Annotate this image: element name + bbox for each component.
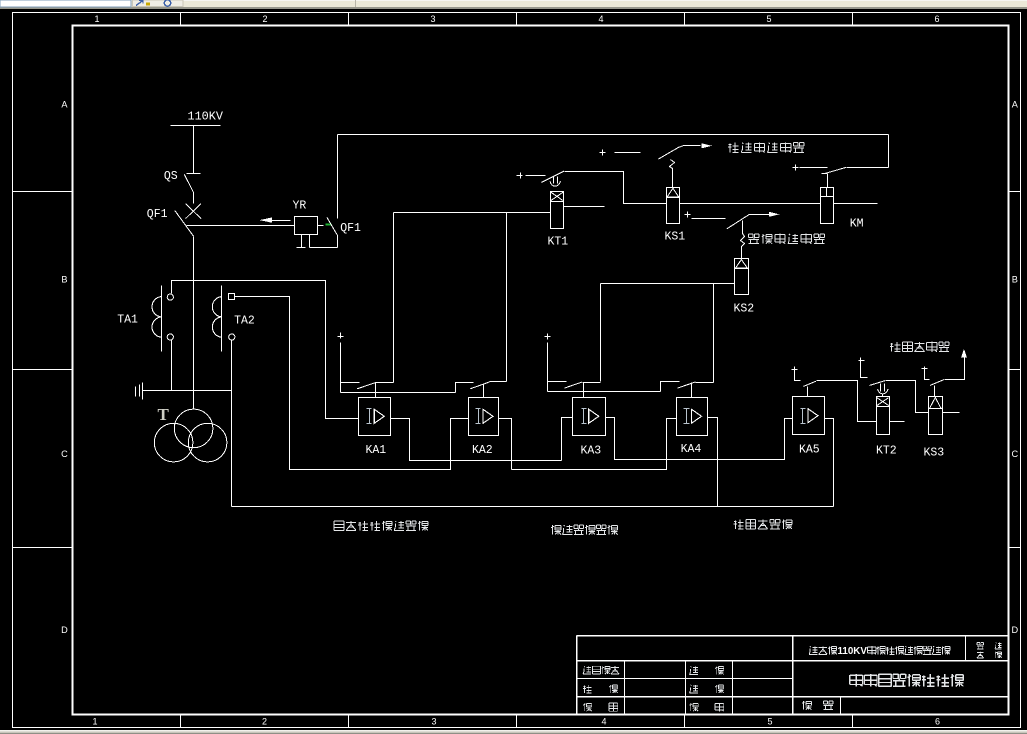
top rail wire [338, 134, 889, 136]
title block label 设计 [690, 666, 724, 674]
caption 过负荷保护 [734, 520, 792, 529]
KA4 contact fixed lead [661, 382, 680, 392]
KS1 contact fixed lead [615, 152, 641, 154]
title block label 指导教师 [583, 666, 619, 674]
node plus KS1 contact [600, 150, 606, 156]
label 过负荷信号 [890, 342, 949, 352]
bottom zone band ticks [181, 715, 853, 728]
KA4 contact blade [677, 382, 695, 388]
status bar sliver bottom [0, 730, 1027, 734]
KS1 contact blade [658, 147, 679, 159]
wire KA1 blade to coil [375, 383, 377, 398]
KT2 contact blade [870, 381, 886, 386]
right zone letters [1011, 100, 1018, 636]
KS3 contact fixed lead [925, 372, 930, 380]
overcurrent relay KA1 [359, 398, 391, 458]
svg-text:B: B [61, 275, 67, 285]
svg-text:110KV: 110KV [838, 646, 868, 657]
quick-break trip signal arrow [750, 212, 780, 217]
svg-text:T: T [158, 405, 170, 424]
KS3 contact blade [930, 380, 944, 386]
wire TA1 to ground bus [171, 341, 173, 391]
wire KA5 down to bottom bus [825, 419, 834, 507]
svg-text:D: D [1011, 625, 1018, 635]
node 110KV label [188, 110, 224, 124]
left zone divider A/B [13, 191, 73, 193]
svg-text:KA1: KA1 [366, 444, 387, 457]
hinge bus wire KA1 KA2 [341, 392, 456, 394]
svg-text:3: 3 [430, 14, 435, 24]
svg-text:A: A [1012, 100, 1019, 110]
wire KA4 blade to coil [691, 383, 693, 398]
disconnector QS [164, 170, 201, 193]
ground bus wire [143, 390, 232, 392]
wire KS3 blade to coil [934, 386, 936, 397]
wire KT2 right stub [890, 421, 905, 423]
svg-text:B: B [1012, 275, 1018, 285]
wire YR to QF1 aux [310, 235, 338, 248]
wire KS2 bus right leg [713, 284, 715, 383]
node plus KA1 KA2 feed [338, 333, 344, 339]
svg-text:KM: KM [850, 218, 864, 231]
KA3 contact blade [564, 382, 582, 388]
svg-text:KS1: KS1 [665, 231, 686, 244]
bottom return bus [232, 506, 834, 508]
overcurrent trip signal arrow [679, 143, 713, 148]
wire KS2 feed bus [601, 283, 735, 285]
delayed action symbol KT2 [878, 384, 889, 397]
title block label 制图 [690, 685, 724, 693]
wire KS1 to KM [680, 203, 821, 205]
svg-text:D: D [61, 625, 68, 635]
wire KA3 blade to coil [583, 383, 585, 398]
svg-text:KT1: KT1 [548, 236, 569, 249]
ground [136, 383, 143, 400]
transformer T [154, 405, 227, 462]
svg-text:QF1: QF1 [340, 222, 361, 235]
caption 电流速断保护 [551, 525, 617, 534]
drawing title 变压器保护原理图 [850, 674, 963, 687]
overcurrent relay KA2 [469, 398, 499, 458]
aux contact QF1 [327, 217, 361, 235]
quick-break relay KA3 [573, 398, 606, 458]
delayed action symbol KT1 [550, 177, 561, 187]
svg-text:KA4: KA4 [681, 443, 702, 456]
bottom zone numbers [92, 717, 940, 727]
top zone numbers [94, 14, 939, 24]
wire QF1 aux to top rail [337, 135, 339, 219]
right zone divider A/B [1009, 191, 1021, 193]
wire KM contact to coil [827, 174, 829, 188]
svg-text:2: 2 [262, 14, 267, 24]
time relay KT1 [548, 192, 569, 249]
wire KM right stub [834, 203, 878, 205]
wire KS3 right stub [943, 412, 960, 414]
right zone divider B/C [1009, 369, 1021, 371]
node plus KS3 contact [922, 367, 928, 373]
svg-text:6: 6 [934, 14, 939, 24]
KM contact blade [822, 167, 847, 173]
KT1 contact fixed lead [526, 175, 546, 177]
wire KA2 contact out [490, 381, 507, 383]
KA1 contact blade [357, 383, 375, 389]
YR legs [297, 235, 310, 248]
KA2 contact blade [470, 382, 489, 389]
left zone divider C/D [13, 547, 73, 549]
wire YR right stub [318, 225, 324, 227]
top zone band ticks [181, 13, 853, 26]
wire riser to KA3 [562, 418, 573, 461]
time relay KT2 [876, 397, 897, 458]
signal relay KS2 [734, 259, 755, 316]
wire KT1 left [394, 212, 551, 214]
node plus KT2 contact [859, 358, 865, 364]
svg-text:KS2: KS2 [734, 303, 755, 316]
KS2 contact fixed lead [692, 218, 726, 220]
svg-text:KS3: KS3 [924, 447, 945, 460]
svg-text:110KV: 110KV [188, 110, 224, 124]
node plus KA3 KA4 feed [545, 334, 551, 340]
project title 某新建110KV变电所电气部分设计 [809, 646, 950, 657]
label 过流跳闸信号 [728, 142, 804, 152]
svg-text:A: A [61, 100, 68, 110]
svg-text:5: 5 [767, 717, 772, 727]
wire KA1 contact out [376, 382, 394, 384]
svg-text:1: 1 [92, 717, 97, 727]
wire KA2 contact riser to KT1 [506, 213, 508, 382]
label 速断跳闸信号 [749, 234, 825, 244]
left zone divider B/C [13, 369, 73, 371]
circuit breaker QF1 [147, 204, 201, 237]
wire KA3 contact out [583, 382, 601, 384]
wire KA1 to KA2 [391, 419, 562, 461]
svg-text:C: C [61, 449, 68, 459]
overload relay KA5 [793, 397, 825, 457]
wire TA2 down to bottom bus [231, 341, 233, 507]
svg-text:TA2: TA2 [234, 315, 255, 328]
svg-text:KA2: KA2 [472, 444, 493, 457]
wire link to KA4 [512, 419, 677, 470]
overload signal arrow [945, 349, 967, 380]
wire KA2 blade to coil [483, 385, 485, 398]
green mark [326, 224, 332, 226]
signal relay KS1 [665, 188, 686, 244]
KT1 contact blade [542, 171, 565, 182]
svg-text:1: 1 [94, 14, 99, 24]
wire KT1 contact to KS1 branch [565, 172, 667, 204]
wire KS2 bus left leg [600, 284, 602, 382]
svg-text:3: 3 [431, 717, 436, 727]
KS1 flag linkage [670, 160, 675, 188]
current transformer TA1 [117, 286, 173, 352]
wire KT2 contact to KS3 [886, 381, 929, 413]
KM contact fixed lead [800, 167, 828, 169]
svg-text:2: 2 [262, 717, 267, 727]
wire QF1 to transformer [193, 237, 195, 410]
svg-text:4: 4 [598, 14, 603, 24]
KA1 contact fixed lead [341, 382, 360, 384]
wire KA5 blade to coil [807, 387, 809, 397]
title block grid [577, 636, 1009, 715]
svg-text:5: 5 [766, 14, 771, 24]
wire QF1 to YR [187, 225, 295, 227]
svg-text:KT2: KT2 [876, 445, 897, 458]
node plus KM contact [793, 165, 799, 171]
title block label 图号 [802, 701, 833, 710]
wire KA1 contact riser to KT1 [393, 213, 395, 383]
node plus KT1 contact [517, 173, 523, 179]
trip direction arrow [259, 218, 290, 223]
KA3 contact fixed lead [548, 381, 567, 383]
wire KA5 contact to KT2 [817, 381, 877, 422]
110KV busbar [171, 125, 221, 127]
node plus KA5 contact [792, 367, 798, 373]
svg-text:QS: QS [164, 170, 178, 183]
svg-text:KA5: KA5 [799, 444, 820, 457]
wire bus to QS [193, 126, 195, 174]
wire KA3 to KA5 [606, 418, 793, 460]
wire TA2 secondary to KA2 [235, 297, 469, 470]
wire KA4 down to bottom bus [708, 418, 718, 507]
hinge bus wire KA3 KA4 [548, 391, 661, 393]
svg-text:TA1: TA1 [117, 314, 138, 327]
KS2 flag linkage [741, 221, 745, 259]
svg-text:6: 6 [935, 717, 940, 727]
wire QS to QF1 [193, 193, 195, 204]
current transformer TA2 [212, 286, 255, 352]
svg-text:4: 4 [601, 717, 606, 727]
svg-text:C: C [1011, 449, 1018, 459]
wire KT1 right stub [564, 206, 605, 208]
trip coil YR [293, 200, 318, 235]
wire plus down KA1 [340, 343, 342, 393]
svg-text:YR: YR [293, 200, 307, 213]
KA2 contact fixed lead [456, 383, 474, 393]
title block label 日期 [690, 703, 724, 712]
wire KA2 right drop [499, 419, 512, 470]
wire plus down KA3 [547, 343, 549, 392]
wire KA4 contact out [696, 382, 714, 384]
toolbar icons [136, 0, 356, 7]
KA5 contact fixed lead [795, 373, 801, 381]
KT2 contact fixed lead [861, 364, 868, 378]
KA5 contact blade [803, 381, 816, 386]
node plus KS2 contact [685, 212, 691, 218]
svg-text:KA3: KA3 [581, 445, 602, 458]
wire TA1 secondary to KA1 [172, 281, 359, 419]
quick-break relay KA4 [677, 398, 708, 457]
signal relay KS3 [924, 397, 945, 460]
wire top rail down to KM contact [847, 135, 889, 168]
toolbar sliver top [0, 0, 1027, 9]
right zone divider C/D [1009, 547, 1021, 549]
KS2 contact blade [727, 214, 750, 229]
title block label 比例 [583, 703, 618, 711]
contactor KM [821, 188, 864, 231]
caption 定时限过电流保护 [334, 521, 428, 530]
title block label 校核 [583, 685, 618, 693]
small cell 课题名称 [977, 643, 1002, 658]
svg-text:QF1: QF1 [147, 208, 168, 221]
left zone letters [61, 100, 68, 636]
